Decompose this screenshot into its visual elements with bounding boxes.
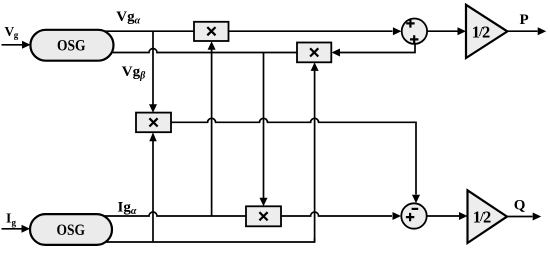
svg-text:OSG: OSG <box>57 222 86 239</box>
summing junction S2 <box>401 203 426 228</box>
wire: Vg_beta rail from OSG to M2 left (hop over x=153) <box>90 49 297 53</box>
svg-text:g: g <box>12 217 17 227</box>
svg-text:g: g <box>14 30 19 40</box>
multiplier M3 <box>136 113 171 133</box>
svg-text:1/2: 1/2 <box>472 22 490 41</box>
wire: vertical Vg_beta tap down into M4 top <box>260 53 268 207</box>
wire: Ig input arrow <box>2 225 31 233</box>
wire: P output arrow <box>507 27 546 35</box>
svg-text:P: P <box>520 12 529 28</box>
wire: vertical Ig_beta riser up into M2 bottom <box>311 62 319 242</box>
gain block 1/2 (Q path) <box>468 190 508 243</box>
wire: Ig_beta rail from OSG to riser corner <box>90 238 315 242</box>
svg-text:Vgβ: Vgβ <box>122 64 146 82</box>
multiplier M4 <box>246 206 281 226</box>
wire: Vg_alpha rail from OSG to summer S1 <box>90 27 401 35</box>
svg-text:Q: Q <box>514 198 526 214</box>
wire: vertical Vg_alpha tap down into M3 top <box>149 31 157 113</box>
svg-text:I: I <box>6 211 11 226</box>
wire: S2 output into gain block <box>427 212 468 220</box>
gain block 1/2 (P path) <box>466 5 507 58</box>
wire: Ig_alpha rail from OSG to M4 left (hop at x=153) <box>90 212 246 216</box>
wire: Vg input arrow <box>2 41 31 49</box>
multiplier M1 <box>194 22 229 41</box>
OSG block U2 (current) <box>30 214 112 245</box>
OSG block U1 (voltage) <box>30 30 113 61</box>
svg-text:Vgα: Vgα <box>116 9 140 27</box>
svg-text:Igα: Igα <box>118 200 137 218</box>
svg-text:1/2: 1/2 <box>473 207 491 226</box>
wire: S1 bottom port feed into M2 right edge <box>332 44 416 56</box>
svg-text:OSG: OSG <box>57 38 86 55</box>
multiplier M2 <box>297 43 331 63</box>
wire: M3 output rail (hops at 211.6, 263.5, 314.6) then down into S2 top <box>171 118 420 203</box>
wire: Q output arrow <box>507 213 541 221</box>
wire: M4 output to S2 left (hop at x=314.6) <box>281 212 401 220</box>
wire: S1 output into gain block <box>427 27 466 35</box>
summing junction S1 <box>402 19 427 44</box>
wire: vertical from Ig_alpha rail up into M1 bottom <box>208 41 216 216</box>
wire: Ig_beta tap up into M3 bottom (through hop in Ig_alpha rail) <box>149 132 156 242</box>
